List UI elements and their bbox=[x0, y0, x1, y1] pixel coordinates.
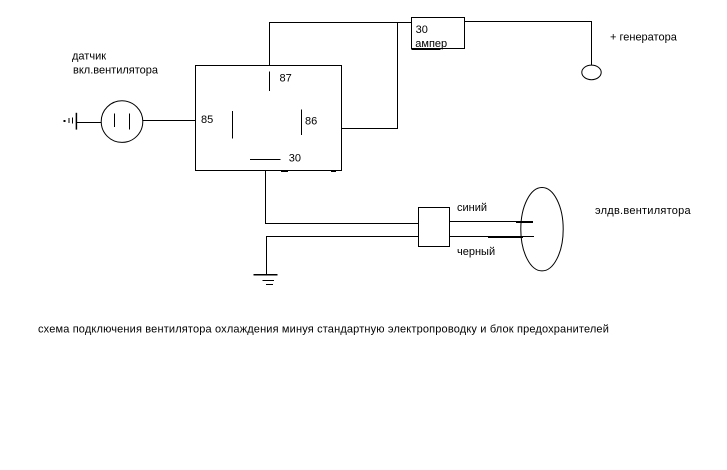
svg-text:синий: синий bbox=[457, 202, 487, 214]
svg-text:черный: черный bbox=[457, 246, 495, 258]
svg-text:вкл.вентилятора: вкл.вентилятора bbox=[73, 65, 159, 77]
svg-text:85: 85 bbox=[201, 114, 213, 126]
svg-text:30: 30 bbox=[289, 152, 301, 164]
svg-text:датчик: датчик bbox=[72, 51, 106, 63]
svg-text:87: 87 bbox=[280, 73, 292, 85]
svg-text:схема подключения вентилятора: схема подключения вентилятора охлаждения… bbox=[38, 324, 609, 336]
svg-text:ампер: ампер bbox=[415, 38, 447, 50]
svg-text:элдв.вентилятора: элдв.вентилятора bbox=[595, 205, 691, 217]
svg-text:86: 86 bbox=[305, 116, 317, 128]
svg-text:30: 30 bbox=[416, 24, 428, 36]
svg-text:+ генератора: + генератора bbox=[610, 31, 678, 43]
